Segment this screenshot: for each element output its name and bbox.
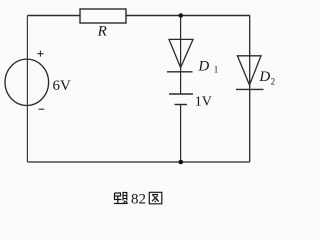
wire right vertical [249, 16, 251, 163]
battery 1V short plate [175, 104, 188, 106]
label D2 [258, 69, 275, 87]
svg-text:1: 1 [214, 65, 219, 75]
svg-text:2: 2 [271, 77, 276, 87]
svg-text:D: D [197, 58, 209, 74]
diode D2 cathode bar [236, 88, 264, 90]
label D1 [197, 58, 218, 74]
caption character 题 [114, 193, 128, 204]
caption character 图 [149, 192, 162, 204]
plus polarity mark [37, 51, 43, 57]
diode D2 triangle [237, 56, 261, 85]
wire battery to bottom [180, 105, 182, 163]
svg-text:R: R [97, 23, 107, 39]
wire D1 branch upper [180, 16, 182, 95]
resistor R [80, 9, 126, 23]
svg-text:1V: 1V [195, 94, 212, 109]
wire top horizontal [27, 15, 250, 17]
diode D1 cathode bar [167, 71, 193, 73]
minus polarity mark [39, 108, 45, 110]
node junction bottom [179, 160, 184, 165]
wire bottom horizontal [27, 161, 249, 163]
svg-text:D: D [258, 69, 270, 85]
svg-text:6V: 6V [53, 78, 72, 94]
node junction top [179, 13, 184, 18]
svg-text:82: 82 [131, 191, 146, 207]
battery 1V long plate [169, 93, 193, 95]
wire left vertical [26, 16, 28, 163]
diode D1 triangle [169, 39, 193, 67]
voltage source 6V circle [5, 59, 49, 105]
